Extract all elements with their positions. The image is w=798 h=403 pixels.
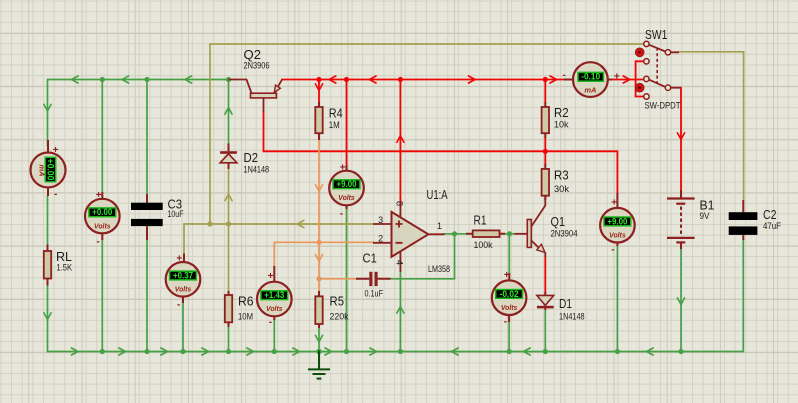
arrow orange riser down at 191 [316,185,323,192]
svg-text:30k: 30k [554,184,569,195]
transistor Q2 [229,80,283,113]
wire R6 top olive [228,224,230,291]
arrow R4 top down [316,84,323,91]
svg-text:-: - [611,245,614,256]
svg-text:220k: 220k [330,312,349,323]
resistor RL [44,245,51,286]
node dot V6 bottom [615,349,620,354]
wire mid red horizontal Q2 collector to V6 [264,112,618,193]
arrow pin8 riser up [397,136,404,143]
voltmeter V5 [492,270,527,328]
arrow B1 bottom down [678,298,685,305]
op-amp U1 [373,206,445,272]
node dot B1 bottom [678,349,683,354]
svg-text:+: + [504,270,510,281]
node dot C3 top [144,77,149,82]
resistor R5 [315,291,322,328]
wire B1 bottom [680,249,682,352]
svg-text:R3: R3 [554,167,569,182]
arrow B1 top wire down [678,133,685,140]
svg-text:+: + [340,162,346,173]
svg-text:0.1uF: 0.1uF [365,289,384,300]
svg-text:+1.43: +1.43 [264,290,284,300]
node dot V2 bottom [180,349,185,354]
wire D2 cathode down olive [228,169,230,224]
svg-text:+: + [268,271,274,282]
svg-text:-: - [177,299,180,310]
svg-text:+9.00: +9.00 [337,179,357,189]
svg-text:U1:A: U1:A [427,187,448,202]
node dot V5 bottom [507,349,512,354]
svg-text:2: 2 [378,233,383,243]
wire R6 bottom [228,327,230,352]
svg-text:+: + [176,254,182,265]
node dot Q2 base [226,77,231,82]
svg-text:+: + [53,145,59,156]
capacitor C1 [356,272,391,286]
node dot olive left edge [207,221,212,226]
svg-text:C2: C2 [763,207,777,222]
wire top-left green rail [48,80,229,146]
wire op-amp pin4 to rail [399,272,401,352]
wire R2 top red [544,80,546,103]
wire R2 bottom to R3 top [544,138,546,164]
arrow orange riser down at 261 [316,255,323,262]
node dot R1-Q1-V5 [507,231,512,236]
arrows bottom rail left-pointing [452,348,654,355]
voltmeter V1 [85,190,120,247]
svg-text:10k: 10k [554,120,569,131]
svg-text:-0.10: -0.10 [581,72,600,82]
svg-text:4: 4 [395,260,405,265]
node dot pin4 rail [398,349,403,354]
node dot V4 riser top [344,77,349,82]
svg-text:+9.00: +9.00 [607,216,627,226]
wire olive box top and left [210,44,644,224]
node dot output [452,231,457,236]
node dot R6 bottom [226,349,231,354]
wire V2 bottom [182,301,184,352]
ground symbol [309,352,329,379]
wire V1 top branch [101,80,103,200]
svg-text:+: + [611,198,617,209]
ammeter A2 [563,62,620,97]
resistor R3 [542,164,549,200]
voltmeter V3 [257,266,292,328]
ammeter A1 [31,140,66,200]
svg-text:-: - [504,317,507,328]
node dot olive D2-R6 [226,221,231,226]
svg-text:-: - [97,236,100,247]
svg-text:D2: D2 [244,150,259,165]
svg-text:1M: 1M [329,120,340,131]
arrow after ammeter right at 627 [623,76,630,83]
wire switch lower throw to B1 red [680,88,682,190]
svg-text:+: + [96,190,102,201]
wire RL to bottom rail [47,286,49,352]
wire V4 bottom [346,209,348,352]
wire switch bracket red [636,61,644,96]
resistor R1 [466,230,505,237]
svg-text:R2: R2 [554,105,569,120]
wire C3 bottom [146,240,148,352]
voltmeter V4 [329,162,364,219]
svg-text:3: 3 [378,215,383,225]
svg-text:Volts: Volts [94,221,111,230]
node dot V4 bottom [344,349,349,354]
svg-text:2N3906: 2N3906 [244,61,270,72]
svg-text:Volts: Volts [501,303,518,312]
svg-text:1.5K: 1.5K [57,263,73,274]
svg-text:Volts: Volts [338,193,355,202]
node dot orange pin2 [316,240,321,245]
node dot pin8 riser top [398,77,403,82]
arrow pin4 wire up [397,307,404,314]
resistor R4 [315,102,322,140]
arrow on left rail down [44,105,51,112]
svg-text:10uF: 10uF [168,209,184,220]
wire V4 riser red [346,80,348,166]
node dot C3 bottom [144,349,149,354]
node dot V3 bottom [272,349,277,354]
wire V1 bottom [101,234,103,352]
svg-text:R4: R4 [329,106,343,121]
wire ammeter right to switch [608,79,644,81]
wire V5 top [508,234,510,273]
node dot orange C1 [316,276,321,281]
arrows bottom rail right-pointing [72,348,377,355]
arrow before ammeter right at 554 [550,76,557,83]
svg-text:R5: R5 [330,294,345,309]
arrow top red rail left at 372 [369,76,376,83]
arrow on top rail left at 188 [185,76,192,83]
svg-text:9V: 9V [700,211,711,222]
wire switch upper throw to C2 olive [679,52,744,200]
svg-text:LM358: LM358 [428,264,450,275]
svg-text:-: - [269,317,272,328]
wire Q1 emitter to D1 red [544,257,546,292]
wire R5 top orange [318,279,320,291]
svg-text:10M: 10M [238,312,253,323]
wire orange pin2 horizontal [274,242,373,266]
wire D2 anode up green [228,80,230,144]
wire D1 cathode to rail [544,310,546,352]
wire V6 bottom [616,246,618,352]
wire R1 right to Q1 base green part [505,233,515,235]
capacitor C3 [131,194,163,240]
svg-text:+: + [614,71,620,82]
switch SW1 [635,41,681,99]
svg-text:Volts: Volts [266,304,283,313]
svg-text:8: 8 [395,201,405,206]
wire bottom ground rail [48,251,744,352]
diode D1 [537,292,554,310]
svg-text:+0.00: +0.00 [92,207,112,217]
wire R5 bottom to ground node [318,328,320,352]
svg-text:C1: C1 [363,251,377,266]
svg-text:R1: R1 [474,213,487,228]
wire V3 bottom [273,320,275,352]
arrow top red rail right at 472 [469,76,476,83]
wire V5 bottom [508,317,510,352]
svg-text:mA: mA [584,85,596,94]
voltmeter V2 [166,254,201,311]
arrow D2 wire up [225,108,232,115]
arrow RL wire down [44,313,51,320]
arrow on top rail left at 74 [72,76,79,83]
capacitor C2 [729,200,758,240]
wire C2 bottom green [742,240,744,251]
svg-text:R6: R6 [238,294,254,309]
wire R4 bottom orange riser [318,140,320,279]
voltmeter V6 [600,193,635,256]
svg-text:Volts: Volts [175,285,192,294]
svg-text:-: - [340,208,343,219]
svg-text:47uF: 47uF [763,221,781,232]
wire output node green [391,234,467,279]
svg-text:100k: 100k [474,240,493,251]
wire pin8 riser red [399,80,401,207]
wire red top rail from Q2 emitter [282,79,573,81]
node dot ground [316,349,322,355]
svg-text:2N3904: 2N3904 [551,229,578,240]
svg-text:-: - [54,189,57,200]
arrow pin3 wire left at 300 [297,221,304,228]
svg-text:-0.02: -0.02 [500,289,519,299]
resistor R6 [225,291,232,327]
svg-text:1N4148: 1N4148 [244,165,270,176]
wire A1 to RL green [47,196,49,245]
node dot R2 top [543,77,548,82]
svg-text:SW-DPDT: SW-DPDT [645,101,681,112]
svg-text:Volts: Volts [609,230,626,239]
resistor R2 [542,102,549,138]
wire R4 top red [318,80,320,103]
arrow on top rail left at 125 [122,76,129,83]
arrow R5 bottom down [316,336,323,343]
svg-text:SW1: SW1 [645,27,667,42]
node dot D1 bottom [543,349,548,354]
wire orange C1 horizontal [319,278,356,280]
node dot V1 top [100,77,105,82]
svg-text:D1: D1 [559,296,572,311]
transistor Q1 [515,196,546,257]
arrow D2 bottom wire up [225,194,232,201]
arrow top red rail left at 332 [329,76,336,83]
svg-text:1: 1 [437,221,442,231]
battery B1 [667,190,695,249]
svg-text:mA: mA [38,164,47,176]
wire C3 top branch [146,80,148,195]
wire olive horizontal to op-amp pin3 [184,224,373,254]
svg-text:Q1: Q1 [551,214,566,229]
node dot R4 top [316,77,321,82]
svg-text:-: - [563,70,566,81]
node dot V1 bottom [100,349,105,354]
node dot R2R3 junction [543,149,548,154]
diode D2 [220,144,237,170]
svg-text:1N4148: 1N4148 [559,312,585,323]
svg-text:+0.37: +0.37 [173,270,193,280]
